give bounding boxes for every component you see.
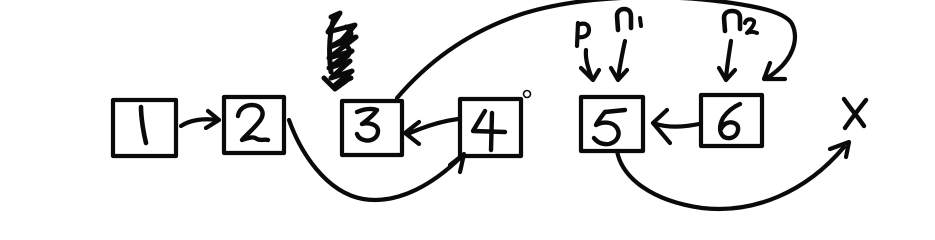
wire arrow 6 to 5 (653, 110, 699, 143)
node box 5 (581, 97, 643, 151)
wire arrow 4 to 3 (405, 119, 458, 144)
wire arrow 1 to 2 (181, 111, 219, 128)
wire arrow n2 down (719, 41, 735, 80)
scribble crossed-out pointer above 3 (324, 13, 356, 89)
small circle mark (524, 91, 531, 98)
node box 1 (113, 100, 176, 156)
wire arrow n1 down (611, 41, 627, 80)
label 4 (473, 111, 505, 150)
node box 3 (342, 101, 402, 155)
label 2 (238, 105, 268, 140)
node box 4 (460, 99, 521, 156)
node box 6 (701, 95, 762, 146)
label X terminator (844, 99, 866, 128)
label n2 (724, 11, 757, 33)
wire curve 2 to 4 (289, 120, 464, 200)
label 5 (594, 110, 625, 144)
label n1 (617, 9, 641, 30)
wire curve 5 to X (617, 142, 849, 209)
label p (577, 23, 589, 46)
wire arrow p down (581, 50, 599, 80)
node box 2 (224, 97, 284, 153)
label 3 (357, 109, 378, 141)
label 6 (720, 104, 740, 138)
wire big top curve 3 to 6 (397, 0, 795, 98)
label 1 (141, 107, 146, 143)
